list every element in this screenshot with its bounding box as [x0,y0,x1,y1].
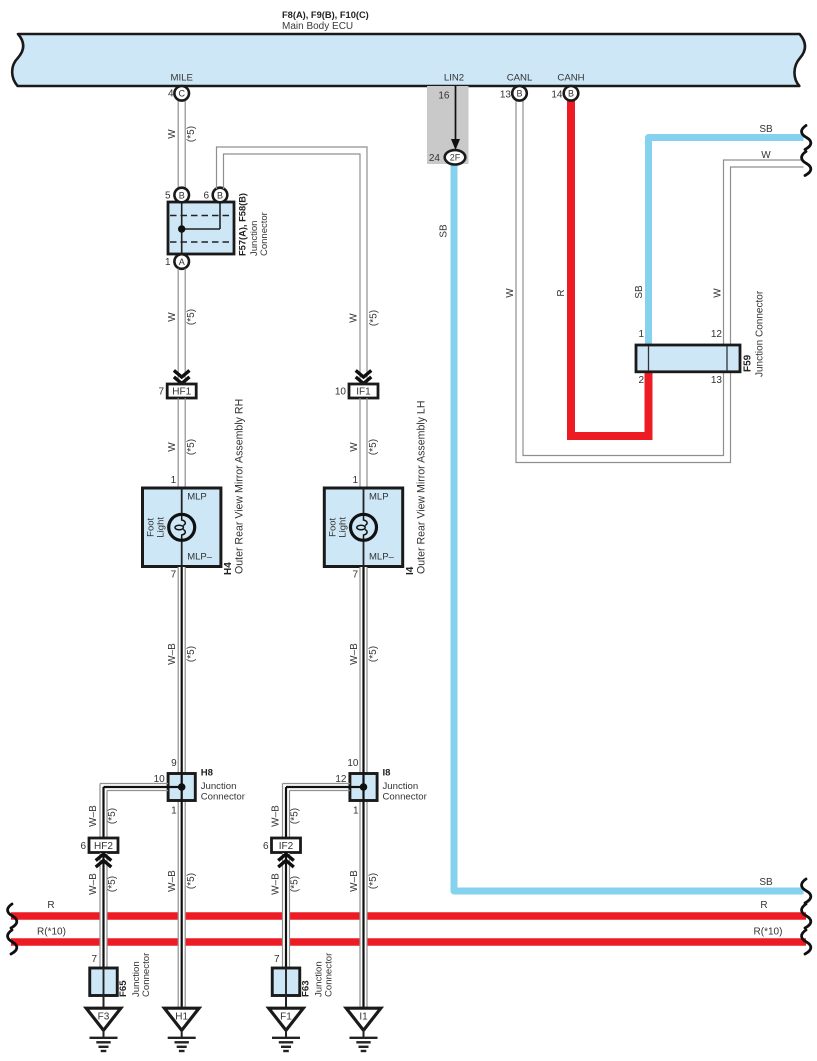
svg-text:CANH: CANH [557,73,584,84]
wire break mark top right SB [802,126,811,150]
svg-text:(*5): (*5) [186,646,197,662]
svg-text:W–B: W–B [167,870,178,892]
svg-text:R: R [556,289,567,296]
svg-text:Outer Rear View Mirror Assembl: Outer Rear View Mirror Assembly RH [234,399,246,574]
connector IF2 [272,838,301,853]
svg-text:Connector: Connector [201,792,246,803]
svg-text:W–B: W–B [88,873,99,895]
svg-text:R(*10): R(*10) [37,927,66,938]
svg-text:MLP: MLP [187,492,207,503]
svg-text:MLP–: MLP– [187,552,213,563]
LIN2 arrow into connector 2F [451,86,460,150]
svg-text:HF1: HF1 [172,387,191,398]
svg-text:14: 14 [551,90,563,101]
svg-text:13: 13 [711,375,723,386]
svg-text:W: W [349,442,360,452]
svg-text:(*5): (*5) [107,808,118,824]
junction connector I8 [350,774,377,801]
svg-text:1: 1 [352,475,358,486]
svg-text:(*5): (*5) [369,310,380,326]
svg-text:SB: SB [634,285,645,299]
svg-text:F1: F1 [280,1012,292,1023]
LIN2 shielded connector gray box [427,86,469,164]
wire W-B tracer down to IF2 [285,787,287,838]
svg-text:MLP: MLP [369,492,389,503]
wire break mark right R(*10) [802,930,811,954]
svg-text:(*5): (*5) [107,876,118,892]
wire W-B black tracer through H8 [181,567,183,774]
svg-text:1: 1 [353,806,359,817]
svg-text:16: 16 [438,91,450,102]
svg-text:MLP–: MLP– [369,552,395,563]
svg-text:W: W [713,288,724,298]
svg-text:(*5): (*5) [290,808,301,824]
wire W-B from mirror pin 7 down to I8 [360,567,367,774]
junction connector F63 [272,968,300,996]
svg-text:W–B: W–B [271,873,282,895]
svg-text:24: 24 [429,153,441,164]
svg-text:Connector: Connector [259,212,270,256]
svg-text:B: B [516,89,522,99]
svg-text:10: 10 [335,387,347,398]
wire break mark left R [8,904,17,928]
junction connector H8 [168,774,195,801]
svg-text:F8(A), F9(B), F10(C): F8(A), F9(B), F10(C) [282,10,369,20]
svg-text:10: 10 [347,758,359,769]
svg-text:HF2: HF2 [94,841,113,852]
ground point F1 [269,1008,304,1051]
svg-text:12: 12 [711,329,723,340]
ECU pin C circle [174,86,189,101]
wire W from HF1 down to H4 foot light [178,398,185,488]
svg-text:4: 4 [168,89,174,100]
svg-text:7: 7 [352,570,358,581]
svg-text:7: 7 [274,954,280,965]
ground point I1 [346,1008,381,1051]
wire SB from right edge break down to F59 pin 1 [649,138,804,346]
svg-text:7: 7 [91,954,97,965]
svg-text:(*5): (*5) [186,439,197,455]
arrow chevrons into HF1 [174,370,190,377]
svg-text:SB: SB [759,124,773,135]
svg-text:Main Body ECU: Main Body ECU [282,21,353,32]
svg-text:(*5): (*5) [290,876,301,892]
svg-text:W–B: W–B [271,805,282,827]
svg-text:Junction Connector: Junction Connector [755,290,766,377]
wire W-B tracer below IF2 [285,853,287,969]
connector IF1 [349,384,378,398]
wire W-B black tracer through I8 [362,567,364,774]
svg-text:MILE: MILE [170,73,192,84]
junction connector F65 [90,968,118,996]
svg-text:Junction: Junction [201,781,237,792]
svg-text:R(*10): R(*10) [754,927,783,938]
ground point H1 [164,1008,199,1051]
svg-text:Outer Rear View Mirror Assembl: Outer Rear View Mirror Assembly LH [416,401,428,574]
wire W from F57 pin 1 down to HF1 [178,269,185,384]
svg-text:(*5): (*5) [186,309,197,325]
wire W-B from HF2 down to F65 [100,853,107,968]
wire R(*10) horizontal power rail [11,938,806,946]
svg-text:W: W [349,313,360,323]
connector 2F oval [445,150,466,164]
wire W-B from junction connector left pin to HF2 [100,784,168,839]
connector HF1 [167,384,196,398]
svg-text:W: W [761,150,771,161]
svg-text:(*5): (*5) [368,439,379,455]
wire R horizontal power rail [11,912,806,920]
F57 pin B circle (pin 5) [174,188,189,203]
svg-text:I8: I8 [383,768,392,779]
svg-text:1: 1 [171,806,177,817]
svg-text:Connector: Connector [141,952,152,997]
svg-text:IF1: IF1 [356,387,371,398]
wire R from CANH pin down, across and up to F59 pin 2 [571,100,649,436]
ground point F3 [86,1008,121,1051]
svg-text:CANL: CANL [507,73,533,84]
wire W-B from H8 down to ground [178,801,185,1010]
svg-text:(*5): (*5) [368,646,379,662]
wire W-B from I8 down to ground [360,801,367,1010]
svg-text:7: 7 [158,387,164,398]
svg-text:W: W [505,288,516,298]
svg-text:F59: F59 [743,354,754,372]
svg-text:LIN2: LIN2 [444,73,464,84]
wire W-B from IF2 down to F63 [282,853,289,968]
Main Body ECU block (power rail band with break marks at both ends) [12,34,805,86]
ECU pin B circle (CANL) [512,86,527,101]
svg-text:I4: I4 [405,566,416,575]
svg-text:F57(A), F58(B): F57(A), F58(B) [238,193,248,256]
wire W-B from junction connector left pin to IF2 [283,784,350,839]
svg-text:1: 1 [638,329,644,340]
svg-text:B: B [217,190,223,200]
wire W-B tracer below HF2 [102,853,104,969]
svg-text:Light: Light [337,517,348,538]
wire W-B from mirror pin 7 down to H8 [178,567,185,774]
connector HF2 [89,838,118,853]
wire W-B tracer down to HF2 [102,787,104,838]
svg-text:9: 9 [171,758,177,769]
svg-text:Connector: Connector [324,952,335,997]
wire SB from connector 2F down and right to break at right edge [454,158,804,891]
svg-text:F65: F65 [118,980,129,997]
wire W from IF1 down to I4 foot light [360,398,367,488]
svg-text:(*5): (*5) [186,126,197,142]
svg-text:SB: SB [759,877,773,888]
F57 pin A circle (pin 1) [174,254,189,269]
svg-text:1: 1 [165,257,171,268]
svg-text:6: 6 [203,191,209,202]
svg-text:B: B [179,190,185,200]
svg-text:R: R [47,900,54,911]
svg-text:H8: H8 [201,768,214,779]
junction connector F59 [636,345,740,372]
svg-text:H1: H1 [175,1012,188,1023]
arrow chevrons out of IF2 [278,854,294,861]
svg-text:W–B: W–B [88,805,99,827]
svg-text:R: R [760,900,767,911]
svg-text:W: W [167,312,178,322]
arrow chevrons into IF1 [356,370,372,377]
svg-text:B: B [568,89,574,99]
svg-text:Light: Light [156,517,167,538]
svg-text:Connector: Connector [383,792,428,803]
junction connector F57(A), F58(B) box [168,202,234,254]
wire break mark left R(*10) [8,930,17,954]
wire W from right edge break down to F59 pin 12 [724,160,804,345]
svg-text:W: W [167,442,178,452]
svg-text:7: 7 [171,570,177,581]
svg-text:1: 1 [171,475,177,486]
svg-text:6: 6 [263,841,269,852]
I4 Outer Rear View Mirror Assembly LH box with foot light lamp [324,488,402,567]
svg-text:13: 13 [500,90,512,101]
svg-text:A: A [179,257,185,267]
svg-text:5: 5 [165,191,171,202]
svg-text:Junction: Junction [383,781,419,792]
svg-text:2: 2 [638,375,644,386]
F57 pin B circle (pin 6) [213,188,228,203]
svg-text:W–B: W–B [167,643,178,665]
wire break mark right R [802,904,811,928]
ECU pin B circle (CANH) [564,86,579,101]
svg-text:H4: H4 [223,562,234,575]
svg-text:(*5): (*5) [368,873,379,889]
wire from F63 to ground F1 [285,996,287,1010]
svg-text:F3: F3 [98,1012,110,1023]
svg-text:W–B: W–B [349,870,360,892]
svg-text:(*5): (*5) [186,873,197,889]
wire break mark top right W [802,152,811,176]
svg-text:C: C [178,89,185,99]
svg-text:SB: SB [439,224,450,238]
svg-text:IF2: IF2 [279,841,294,852]
wire break mark bottom right SB [802,879,811,903]
wire W from ECU pin 4 down to junction connector F57 pin 5 [178,99,185,189]
arrow chevrons out of HF2 [96,854,112,861]
svg-text:W: W [167,129,178,139]
H4 Outer Rear View Mirror Assembly RH box with foot light lamp [143,488,221,567]
wire from F65 to ground F3 [103,996,105,1010]
wire W from F57 pin 6 up over to IF1 (LH feed loop) [217,147,368,383]
svg-text:2F: 2F [450,153,461,163]
svg-text:I1: I1 [359,1012,368,1023]
wire W from CANL pin down, across bottom and up to F59 pin 13 [516,100,731,463]
svg-text:W–B: W–B [349,643,360,665]
svg-text:F63: F63 [301,980,312,997]
svg-text:6: 6 [80,841,86,852]
